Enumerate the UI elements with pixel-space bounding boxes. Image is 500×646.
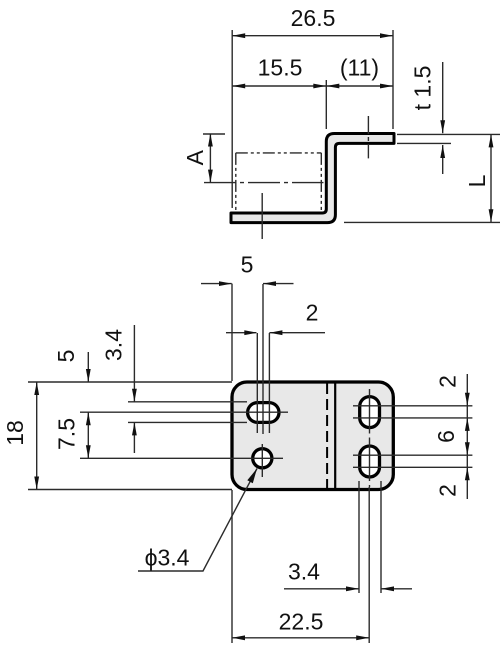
svg-text:6: 6 bbox=[433, 430, 459, 443]
svg-text:A: A bbox=[182, 149, 208, 165]
svg-text:5: 5 bbox=[53, 350, 79, 363]
svg-text:2: 2 bbox=[435, 375, 461, 388]
svg-text:ϕ3.4: ϕ3.4 bbox=[145, 545, 190, 571]
svg-text:5: 5 bbox=[241, 252, 254, 278]
svg-text:L: L bbox=[464, 174, 490, 187]
svg-text:7.5: 7.5 bbox=[54, 418, 80, 450]
svg-text:3.4: 3.4 bbox=[101, 329, 127, 361]
svg-text:2: 2 bbox=[435, 484, 461, 497]
svg-text:26.5: 26.5 bbox=[291, 5, 336, 31]
svg-text:18: 18 bbox=[2, 420, 28, 446]
svg-text:22.5: 22.5 bbox=[279, 609, 324, 635]
svg-text:15.5: 15.5 bbox=[258, 55, 303, 81]
svg-text:(11): (11) bbox=[340, 55, 379, 81]
svg-text:2: 2 bbox=[306, 300, 319, 326]
svg-text:t 1.5: t 1.5 bbox=[410, 66, 436, 111]
svg-text:3.4: 3.4 bbox=[288, 559, 320, 585]
